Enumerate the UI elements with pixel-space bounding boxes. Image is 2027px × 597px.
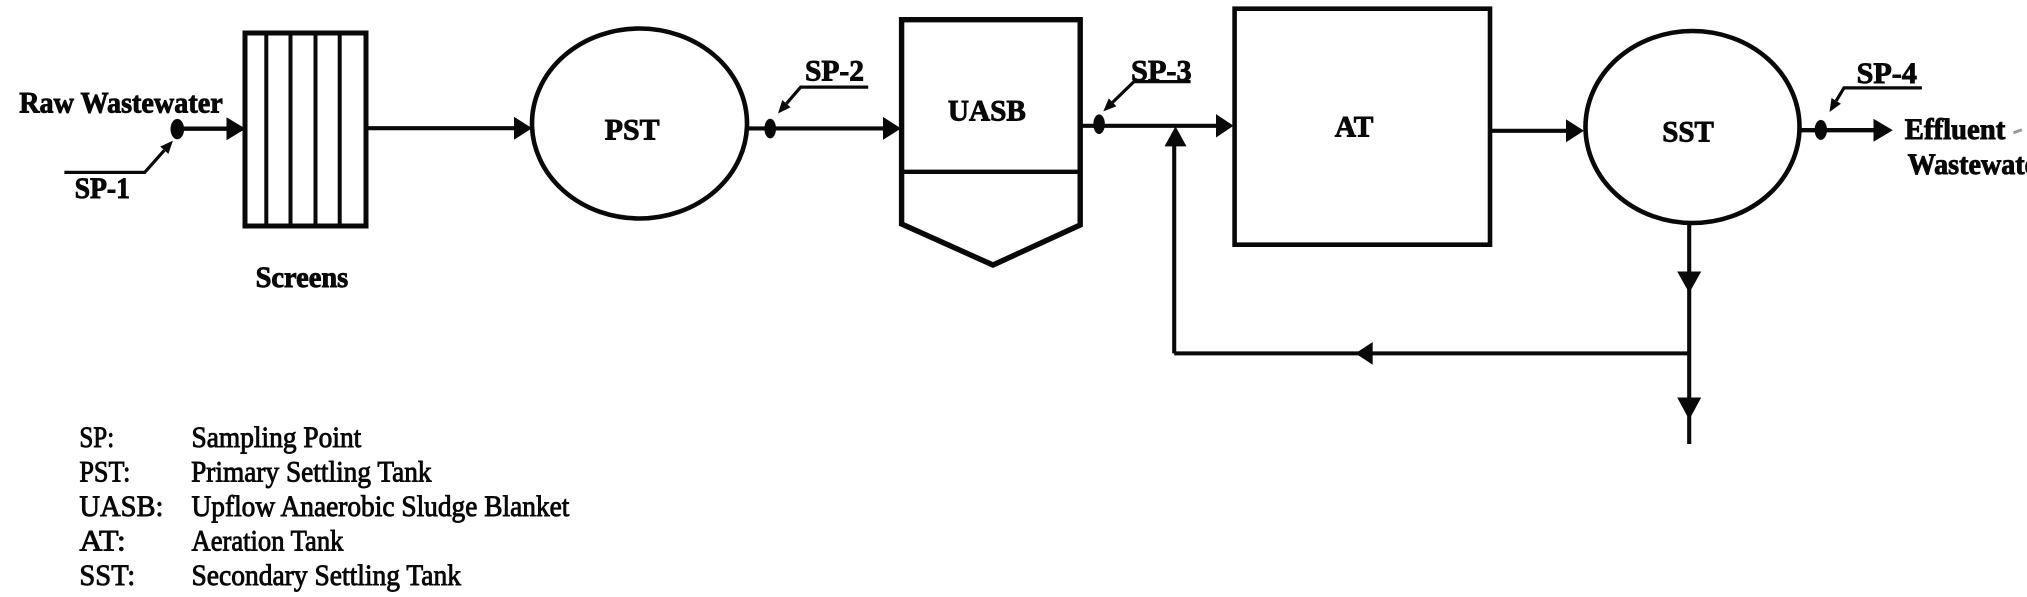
svg-text:SP-2: SP-2 bbox=[805, 55, 864, 88]
svg-text:PST: PST bbox=[605, 113, 660, 146]
svg-text:UASB:: UASB: bbox=[79, 490, 163, 523]
svg-text:SST: SST bbox=[1662, 116, 1714, 149]
svg-text:SP-1: SP-1 bbox=[75, 172, 130, 205]
svg-text:Secondary Settling Tank: Secondary Settling Tank bbox=[192, 559, 462, 592]
svg-text:Raw Wastewater: Raw Wastewater bbox=[19, 86, 223, 119]
svg-text:SP:: SP: bbox=[79, 421, 114, 454]
svg-text:Screens: Screens bbox=[256, 261, 349, 294]
svg-text:SP-4: SP-4 bbox=[1857, 57, 1917, 90]
svg-text:Aeration Tank: Aeration Tank bbox=[192, 525, 344, 558]
svg-text:AT: AT bbox=[1335, 111, 1374, 144]
svg-text:Primary Settling Tank: Primary Settling Tank bbox=[191, 456, 432, 489]
svg-text:SST:: SST: bbox=[79, 559, 135, 592]
svg-text:Effluent: Effluent bbox=[1905, 113, 2006, 146]
svg-text:Sampling Point: Sampling Point bbox=[192, 421, 362, 454]
svg-text:SP-3: SP-3 bbox=[1131, 54, 1192, 87]
svg-text:UASB: UASB bbox=[948, 95, 1026, 128]
svg-text:Upflow Anaerobic Sludge Blanke: Upflow Anaerobic Sludge Blanket bbox=[192, 490, 570, 523]
svg-text:PST:: PST: bbox=[79, 456, 130, 489]
svg-text:AT:: AT: bbox=[79, 525, 125, 558]
svg-text:Wastewater: Wastewater bbox=[1908, 148, 2027, 181]
